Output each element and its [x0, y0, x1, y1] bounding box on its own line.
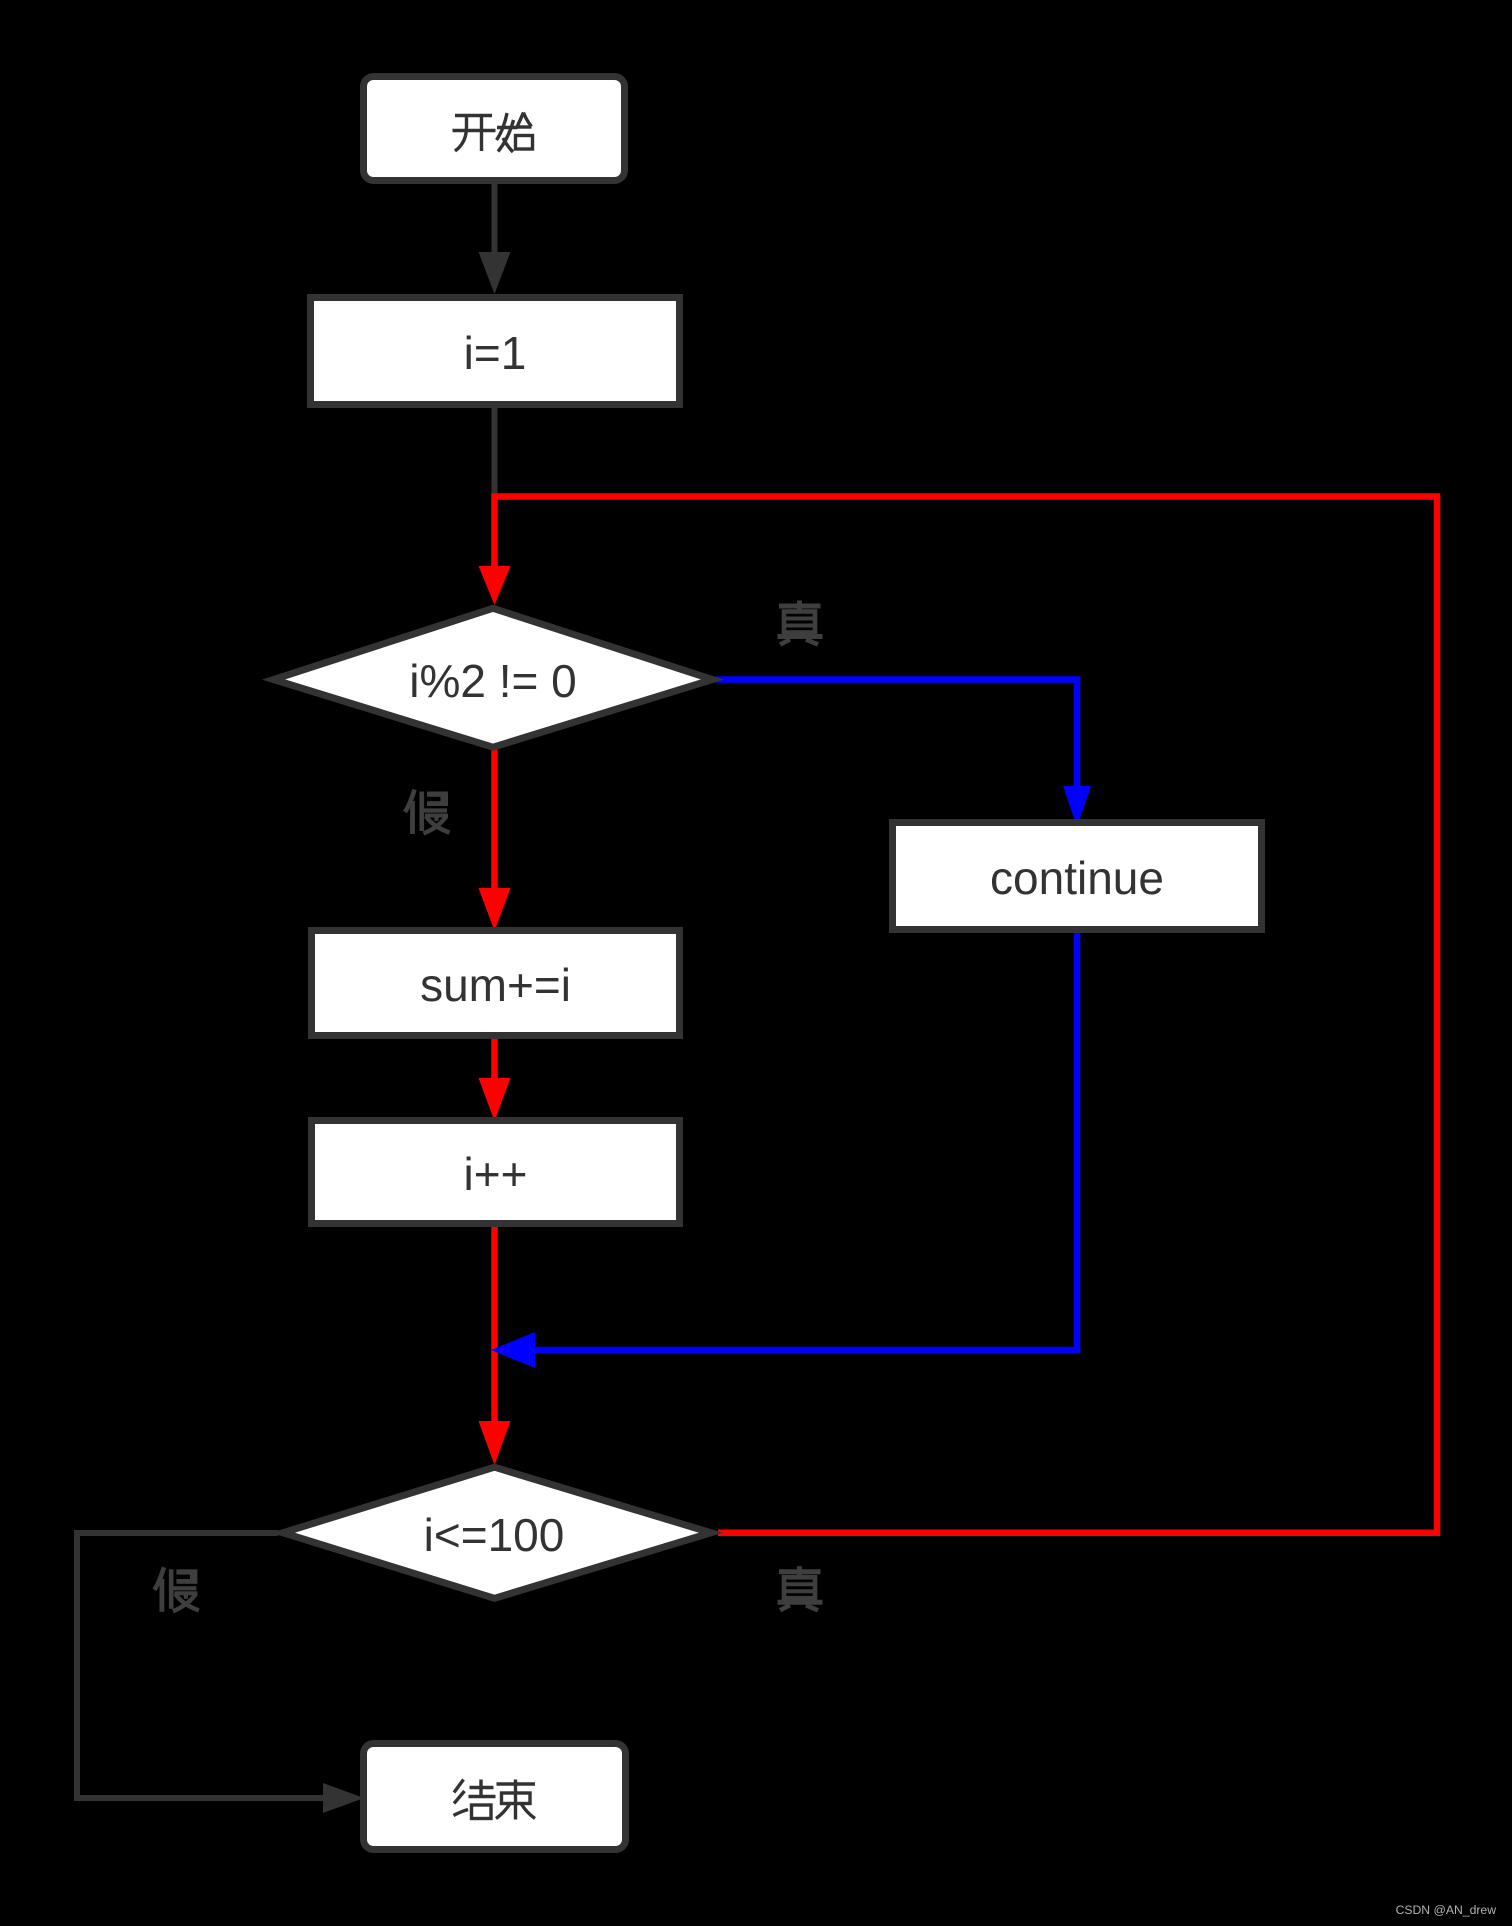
- glyph 结 (end box): [454, 1780, 496, 1819]
- continue box: [893, 823, 1262, 930]
- svg-text:i++: i++: [464, 1148, 528, 1200]
- glyph 开 (start box): [453, 116, 496, 152]
- label false (假) left below diamond2: [154, 1567, 199, 1612]
- red loop wire (true branch of i<=100 back to first diamond): [479, 497, 1438, 1533]
- wire start to i=1: [479, 184, 511, 294]
- red wire sum to i++: [479, 1039, 511, 1121]
- label true (真) right of diamond1: [778, 601, 823, 645]
- glyph 束 (end box): [496, 1780, 535, 1820]
- svg-text:i<=100: i<=100: [424, 1509, 565, 1561]
- svg-text:sum+=i: sum+=i: [420, 959, 571, 1011]
- start box: [364, 77, 625, 181]
- wire i=1 to red junction: [492, 408, 498, 494]
- svg-text:i%2 != 0: i%2 != 0: [409, 655, 577, 707]
- dark wire diamond2 to end box (false branch): [77, 1533, 364, 1813]
- diamond1 i%2 != 0: [274, 608, 713, 747]
- i++ box: [312, 1121, 680, 1224]
- diamond2 i<=100: [283, 1467, 711, 1598]
- i=1 box: [311, 298, 680, 405]
- label true (真) right of diamond2: [778, 1566, 823, 1610]
- svg-text:continue: continue: [990, 852, 1164, 904]
- label false (假) below diamond1: [405, 790, 450, 835]
- blue wire diamond1 to continue (true branch): [716, 680, 1091, 828]
- svg-text:CSDN @AN_drew: CSDN @AN_drew: [1396, 1903, 1497, 1917]
- sum box: [312, 931, 680, 1036]
- red wire diamond1 to sum box (false branch): [479, 749, 511, 931]
- end box: [364, 1744, 626, 1850]
- red wire i++ to diamond2: [479, 1227, 511, 1465]
- blue wire continue to junction: [491, 933, 1077, 1368]
- glyph 始 (start box): [497, 113, 533, 153]
- svg-text:i=1: i=1: [464, 327, 527, 379]
